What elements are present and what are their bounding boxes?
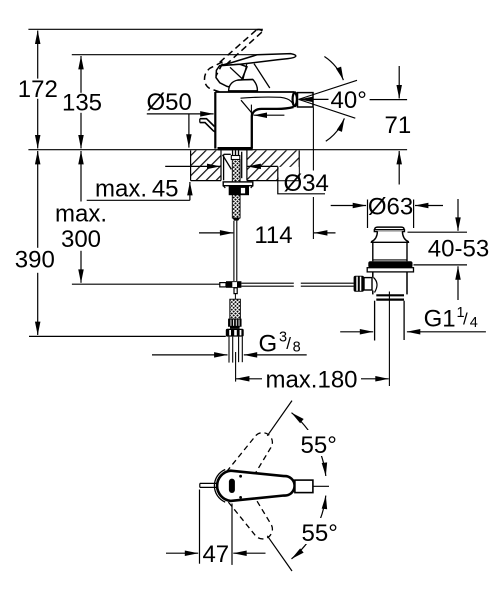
- 55 deg arc lower: [292, 496, 326, 559]
- pop-up rod (top view): [200, 483, 218, 487]
- svg-text:55°: 55°: [301, 432, 337, 459]
- 40 deg arcs: [324, 57, 344, 142]
- cartridge dome: [229, 79, 258, 91]
- lever handle (solid): [216, 54, 296, 88]
- svg-text:390: 390: [15, 247, 55, 274]
- dim max.180: [236, 378, 389, 380]
- svg-text:172: 172: [18, 76, 58, 103]
- svg-text:8: 8: [293, 340, 301, 356]
- drain neck flare: [371, 231, 408, 242]
- pop-up vertical rod: [234, 221, 237, 281]
- dim 71: [370, 99, 408, 101]
- dim 135: [80, 56, 82, 148]
- pop-up rod knob (side): [200, 119, 215, 132]
- faucet top view body: [217, 471, 295, 501]
- aerator position extension line: [312, 108, 314, 240]
- dim 390: [37, 151, 39, 335]
- drain knob collar: [364, 278, 372, 290]
- svg-text:114: 114: [254, 222, 292, 249]
- dim 114: [199, 232, 336, 234]
- escutcheon arc (top view): [214, 470, 225, 503]
- label G1 1/4 + arrows: [340, 331, 486, 333]
- svg-text:71: 71: [385, 112, 412, 139]
- hose nut: [226, 329, 244, 337]
- dim 47: [166, 490, 266, 565]
- svg-text:G: G: [259, 331, 278, 358]
- label clearing for O34: [279, 167, 299, 180]
- supply tubes G3/8: [229, 337, 242, 382]
- base gasket: [218, 147, 253, 150]
- drain centre line: [388, 292, 390, 387]
- drain knob (knurled): [354, 276, 364, 292]
- svg-text:max. 45: max. 45: [95, 175, 179, 202]
- drain tailpipe: [375, 301, 405, 341]
- spout: [241, 92, 297, 149]
- handle slot (top view): [229, 479, 235, 493]
- countertop slab hatched: [191, 150, 300, 180]
- svg-text:47: 47: [202, 541, 229, 568]
- mounting washer: [223, 182, 253, 188]
- 55 deg line upper: [267, 401, 292, 436]
- flex hose braid: [230, 299, 241, 319]
- svg-text:/: /: [286, 334, 291, 353]
- ref line hose reach (max300): [72, 283, 220, 285]
- svg-text:G1: G1: [424, 306, 456, 333]
- text 55 lower: [299, 518, 339, 544]
- dim O34 label + arrows: [165, 166, 325, 193]
- svg-text:Ø34: Ø34: [284, 170, 329, 197]
- 40 deg aerator swivel: rays: [299, 80, 357, 118]
- svg-text:135: 135: [62, 89, 102, 116]
- text 55 upper: [299, 430, 339, 456]
- svg-text:55°: 55°: [302, 520, 338, 547]
- svg-text:40-53: 40-53: [428, 236, 489, 263]
- label G3/8 + arrows: [152, 354, 228, 356]
- svg-text:/: /: [463, 310, 468, 329]
- threaded shank top: [231, 150, 240, 159]
- 55 deg line lower: [267, 536, 292, 571]
- spout swivel petal upper (dashed): [214, 427, 280, 505]
- drain flange: [367, 268, 413, 272]
- dim O50 right arrow: [254, 114, 285, 116]
- svg-text:4: 4: [470, 315, 478, 331]
- threaded shank (knurled): [232, 160, 240, 219]
- screw dots: [239, 475, 242, 478]
- drain coupling G1 1/4: [376, 295, 404, 299]
- mounting nut: [229, 186, 249, 196]
- 40 deg leader + arrowhead: [299, 98, 328, 100]
- lever raised (dashed): [204, 29, 262, 91]
- pop-up horizontal rod (with break): [241, 283, 353, 286]
- countertop surface line: [28, 149, 407, 151]
- aerator (top view): [295, 480, 313, 493]
- axis line: [313, 485, 329, 487]
- dim O63: [331, 200, 443, 229]
- ref line supply length (390): [29, 335, 226, 337]
- dim 172: [37, 31, 39, 149]
- aerator: [298, 93, 314, 107]
- ref line spout height (135): [72, 54, 258, 56]
- drain upper cylinder: [373, 242, 407, 261]
- hose ribbed collar: [229, 319, 242, 326]
- pop-up cross fitting: [220, 281, 242, 299]
- faucet body side view: [215, 92, 294, 149]
- spout swivel petal lower (dashed): [214, 467, 280, 545]
- drain pop-up plug cap: [374, 227, 404, 231]
- drain body: [373, 272, 407, 295]
- svg-text:max.180: max.180: [265, 367, 357, 394]
- svg-text:Ø63: Ø63: [368, 193, 413, 220]
- drain rubber gasket: [368, 261, 412, 267]
- svg-text:40°: 40°: [331, 87, 367, 114]
- mounting spacer wedge: [223, 152, 242, 181]
- 55 deg arc upper: [292, 413, 326, 476]
- svg-text:Ø50: Ø50: [147, 89, 192, 116]
- svg-text:300: 300: [61, 226, 101, 253]
- svg-text:max.: max.: [55, 200, 107, 227]
- ref line lever max height (172): [28, 28, 263, 30]
- dim max 300: [80, 151, 82, 283]
- dim 40-53: [408, 199, 468, 300]
